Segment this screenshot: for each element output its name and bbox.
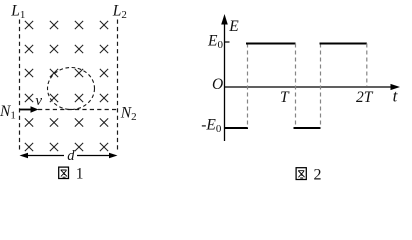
dashed at 2T down to axis [366,44,368,87]
svg-text:E: E [228,18,239,35]
label E [228,18,239,35]
velocity arrow v [20,106,39,112]
label v [35,93,42,109]
svg-text:N2: N2 [120,105,137,124]
svg-text:N1: N1 [0,103,16,121]
label -E0 [201,116,222,135]
label E0 with tick [207,32,230,51]
label N2 [120,105,137,124]
waveform segment -E0 from T to 4T/3 [294,127,321,129]
svg-text:O: O [212,76,223,93]
conducting loop (dashed circle) [48,68,95,110]
waveform segment +E0 from 4T/3 to 2T [320,42,367,44]
svg-text:2: 2 [314,167,322,184]
label d [67,148,75,164]
label O (origin) [212,76,223,93]
caption figure 1 numeral [76,166,84,183]
svg-text:1: 1 [76,166,84,183]
svg-text:d: d [67,148,75,164]
E axis (vertical) of graph [221,14,228,141]
svg-text:v: v [35,93,42,109]
label L2 [112,3,127,21]
boundary line L2 (dashed vertical) [117,20,119,152]
svg-text:2T: 2T [356,89,374,106]
label N1 [0,103,16,121]
svg-text:L2: L2 [112,3,127,21]
magnetic field cross grid (into page) [25,21,108,151]
svg-text:T: T [280,89,290,106]
transition dashed at 4T/3 [320,44,322,129]
label L1 [10,3,25,21]
line N1N2 (dashed horizontal) [38,109,118,111]
transition dashed at T [295,44,297,129]
width dimension arrow d [20,153,118,159]
t axis (horizontal) of graph [225,84,401,90]
boundary line L1 (dashed vertical) [19,20,21,152]
waveform segment -E0 from 0 to T/3 [225,127,248,129]
waveform segment +E0 from T/3 to T [246,42,296,44]
svg-text:E0: E0 [207,32,223,51]
svg-text:t: t [393,87,399,106]
label 2T [356,89,374,106]
label T [280,89,290,106]
svg-text:-E0: -E0 [201,116,222,135]
label t [393,87,399,106]
caption figure 1 glyph (tu) [59,167,69,178]
caption figure 2 numeral [314,167,322,184]
caption figure 2 glyph (tu) [296,168,306,180]
transition dashed at T/3 [247,44,249,129]
svg-text:L1: L1 [10,3,25,21]
